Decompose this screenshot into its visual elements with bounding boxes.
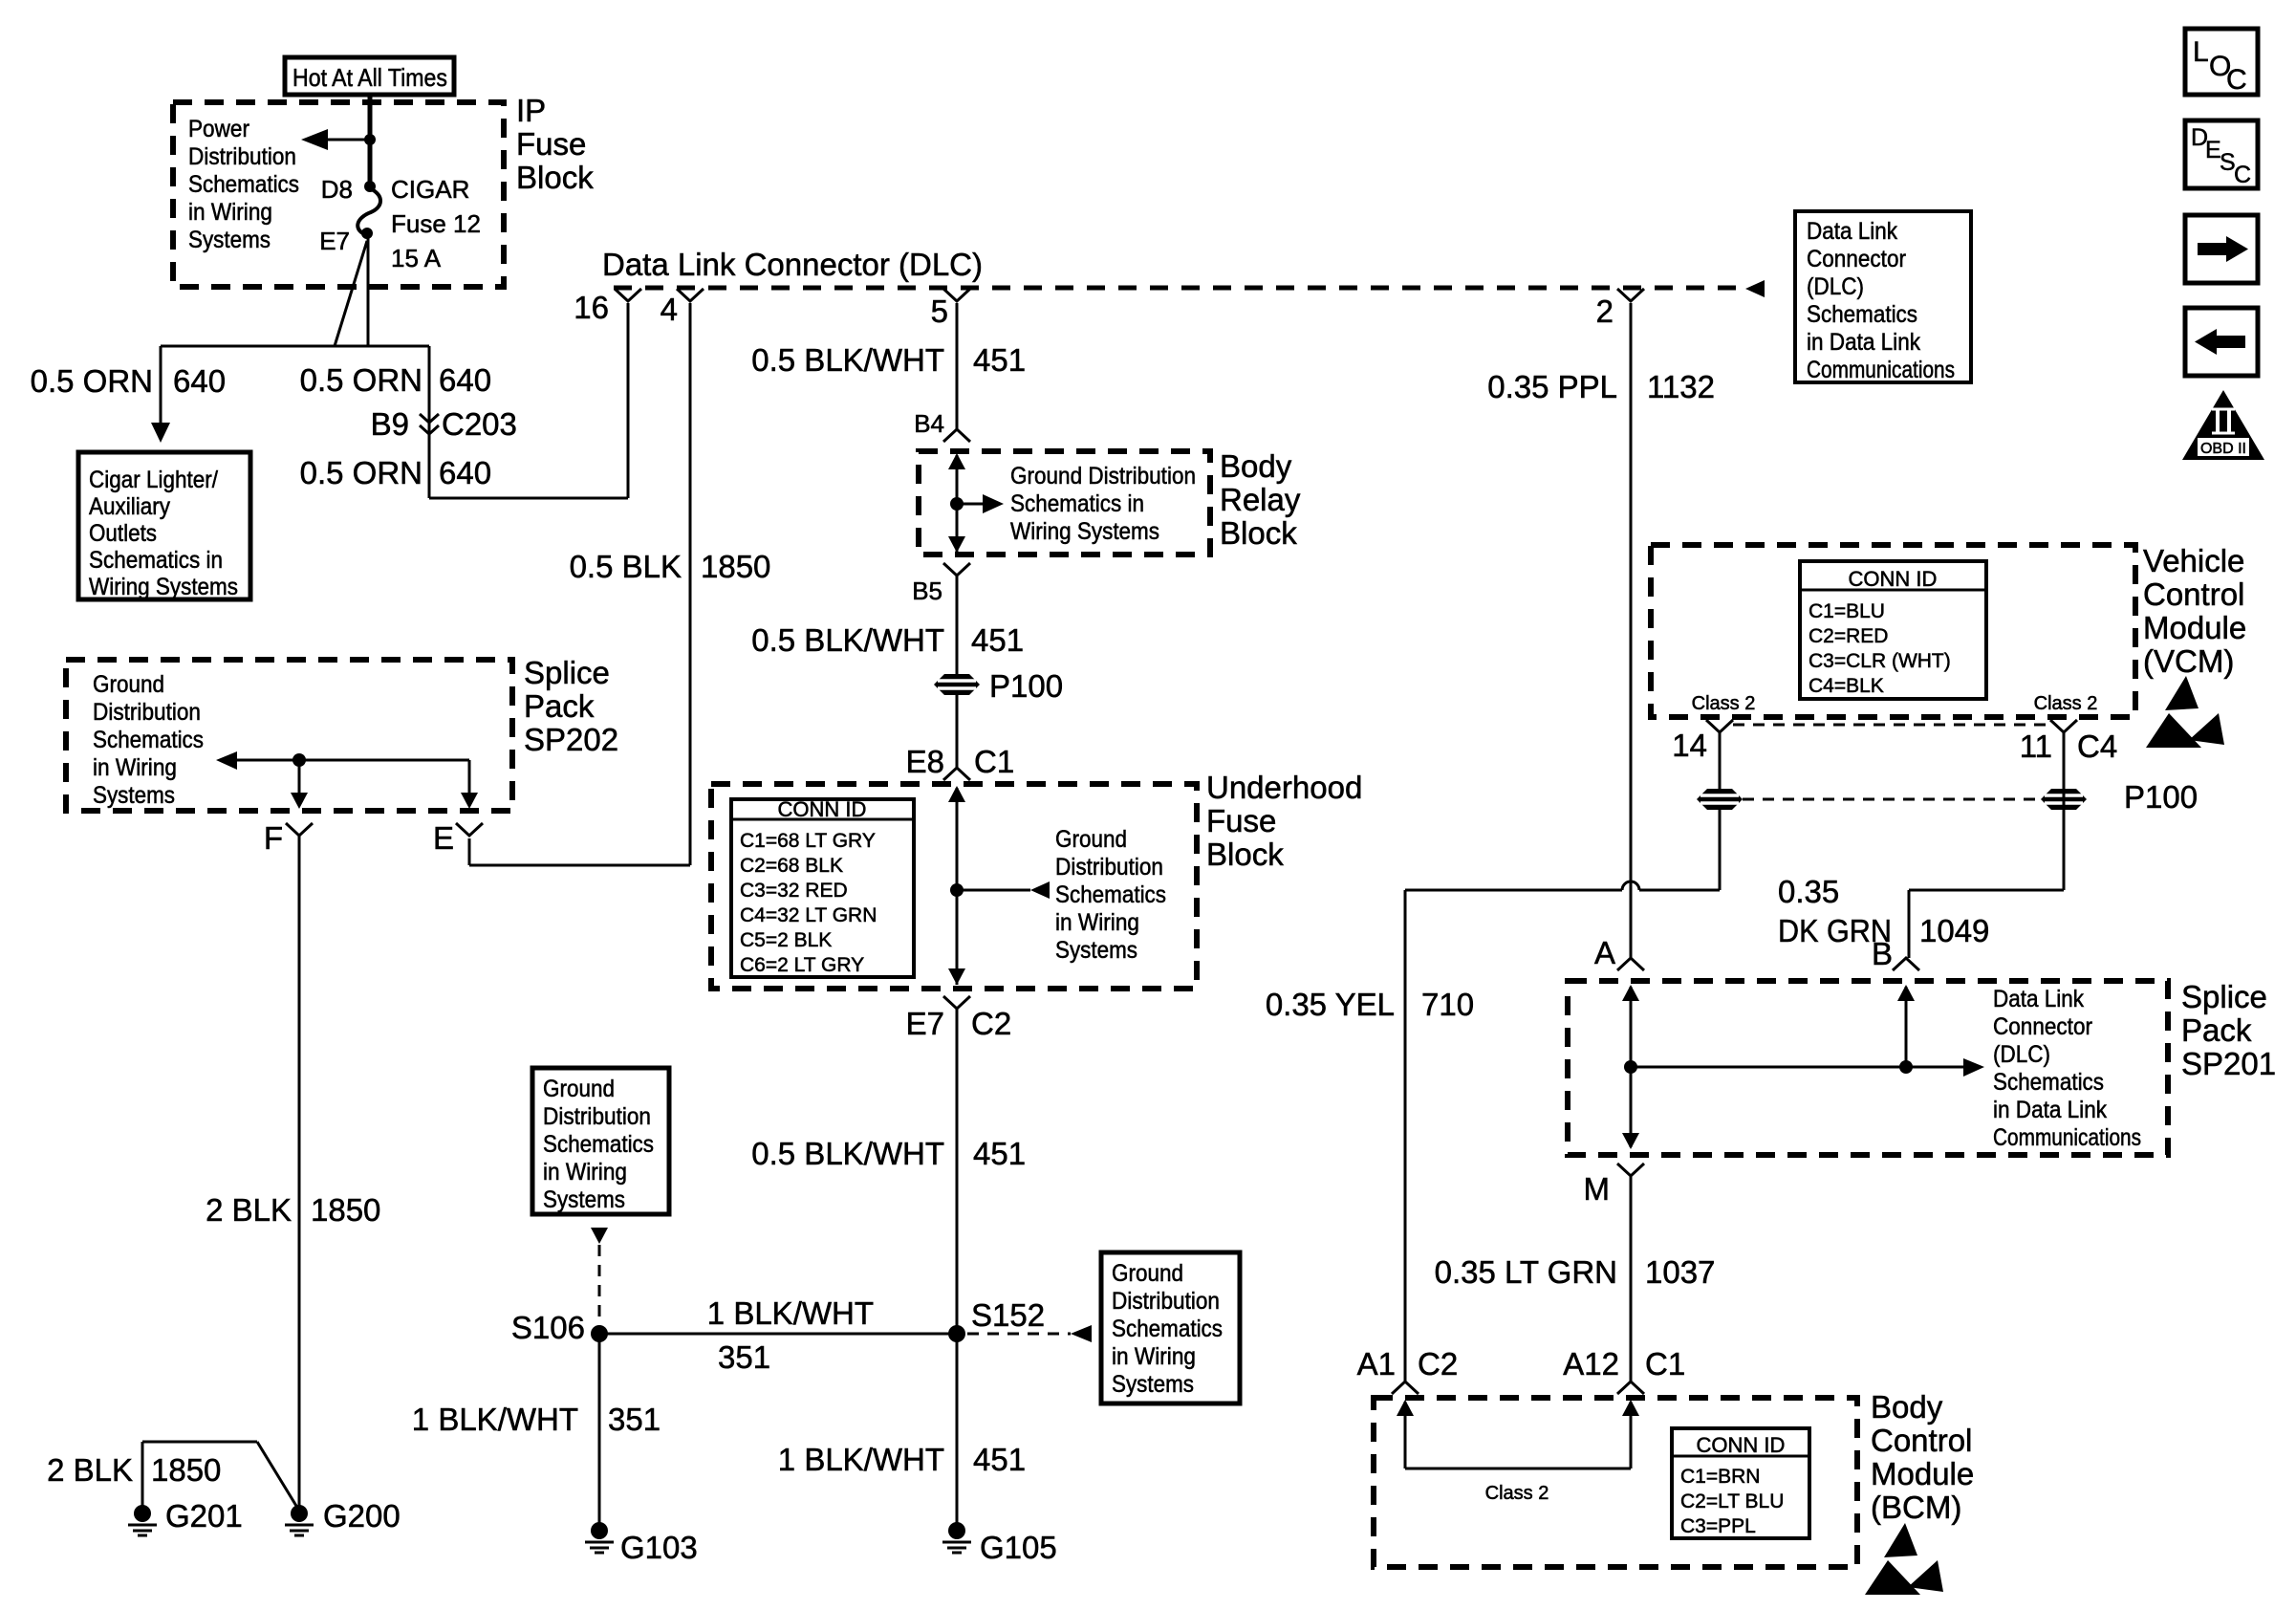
splice S152 dot bbox=[948, 1325, 965, 1342]
wire SP202 internal bus bbox=[235, 759, 469, 762]
svg-text:Block: Block bbox=[1206, 837, 1284, 872]
DLC pin 16 fork terminal bbox=[615, 289, 641, 301]
ground G103 bbox=[591, 1522, 608, 1539]
svg-text:(VCM): (VCM) bbox=[2143, 643, 2234, 679]
ESD symbol (BCM) bbox=[1884, 1523, 1917, 1557]
svg-text:(DLC): (DLC) bbox=[1993, 1041, 2050, 1068]
svg-text:B9: B9 bbox=[371, 406, 409, 442]
svg-text:640: 640 bbox=[173, 363, 226, 399]
svg-text:451: 451 bbox=[973, 1442, 1026, 1477]
svg-text:C4=32 LT GRN: C4=32 LT GRN bbox=[740, 904, 877, 926]
svg-text:C203: C203 bbox=[442, 406, 517, 442]
svg-text:C1=68 LT GRY: C1=68 LT GRY bbox=[740, 830, 876, 852]
svg-text:C2=LT BLU: C2=LT BLU bbox=[1680, 1490, 1784, 1512]
svg-text:Systems: Systems bbox=[1112, 1371, 1194, 1398]
svg-text:A12: A12 bbox=[1563, 1346, 1619, 1382]
svg-text:in Wiring: in Wiring bbox=[1055, 909, 1139, 936]
wire power distribution tap bbox=[326, 139, 370, 141]
svg-text:Wiring Systems: Wiring Systems bbox=[1010, 518, 1159, 545]
wire B5 down to P100 bbox=[956, 576, 959, 674]
svg-text:Class 2: Class 2 bbox=[1485, 1483, 1549, 1504]
grommet P100 (pin5 wire) bbox=[934, 674, 980, 695]
svg-text:351: 351 bbox=[608, 1402, 661, 1437]
svg-text:16: 16 bbox=[574, 290, 609, 325]
svg-text:Hot At All Times: Hot At All Times bbox=[292, 63, 447, 92]
svg-text:Ground: Ground bbox=[543, 1076, 615, 1102]
ground G201 bbox=[134, 1505, 151, 1522]
wire G201 drop bbox=[141, 1442, 144, 1507]
fuse F12 CIGAR 15A element bbox=[357, 188, 380, 235]
splice pack SP202 dashed box bbox=[66, 660, 512, 811]
svg-text:451: 451 bbox=[973, 1136, 1026, 1171]
svg-text:F: F bbox=[264, 820, 283, 856]
svg-text:1049: 1049 bbox=[1919, 913, 1989, 948]
arrow into BCM pin A12 bbox=[1622, 1400, 1639, 1416]
svg-text:Systems: Systems bbox=[1055, 937, 1137, 964]
wire VCM pin 11 down bbox=[2063, 732, 2066, 890]
pin E7 C2 fork terminal bbox=[943, 996, 970, 1009]
svg-text:G201: G201 bbox=[165, 1498, 243, 1534]
svg-text:C3=CLR (WHT): C3=CLR (WHT) bbox=[1809, 650, 1951, 672]
svg-text:2 BLK: 2 BLK bbox=[206, 1192, 292, 1228]
svg-text:Fuse: Fuse bbox=[1206, 803, 1276, 838]
svg-text:Schematics: Schematics bbox=[188, 171, 299, 198]
grommet P100 (pin 11 wire) bbox=[2041, 789, 2087, 810]
arrow into underhood fuse block E8 bbox=[948, 786, 965, 802]
wire BCM pin A1 internal bbox=[1404, 1402, 1407, 1469]
reference box Ground Distribution Schematics in Wiring Systems (above S106) bbox=[532, 1068, 669, 1214]
wire SP201 internal bus bbox=[1631, 1066, 1963, 1069]
ground G105 bbox=[948, 1522, 965, 1539]
svg-text:0.5 ORN: 0.5 ORN bbox=[300, 455, 422, 490]
svg-text:11: 11 bbox=[2020, 729, 2052, 764]
svg-text:SP201: SP201 bbox=[2181, 1046, 2276, 1081]
grommet P100 (pin 14 wire) bbox=[1697, 789, 1743, 810]
svg-text:1850: 1850 bbox=[311, 1192, 380, 1228]
svg-text:4: 4 bbox=[661, 292, 678, 327]
svg-text:G200: G200 bbox=[323, 1498, 401, 1534]
svg-text:Module: Module bbox=[2143, 610, 2246, 645]
svg-text:Ground: Ground bbox=[1055, 826, 1127, 853]
svg-text:CONN ID: CONN ID bbox=[778, 797, 867, 821]
wire G201 branch horizontal bbox=[142, 1441, 257, 1444]
Vehicle Control Module dashed box bbox=[1651, 545, 2135, 717]
svg-text:C1=BRN: C1=BRN bbox=[1680, 1466, 1760, 1488]
wire SP201 port B internal bbox=[1905, 987, 1908, 1067]
svg-text:C1: C1 bbox=[1645, 1346, 1685, 1382]
wire VCM pin 14 down bbox=[1719, 732, 1722, 890]
svg-text:Distribution: Distribution bbox=[93, 699, 201, 726]
svg-text:Auxiliary: Auxiliary bbox=[89, 493, 170, 520]
arrow into body relay block B4 bbox=[948, 453, 965, 469]
junction dot SP201 port B bus bbox=[1899, 1060, 1913, 1074]
connector C203 pin B9 inline connector chevrons bbox=[420, 414, 439, 423]
reference box Data Link Connector (DLC) Schematics in Data Link Communications bbox=[1795, 211, 1971, 382]
svg-text:Distribution: Distribution bbox=[1055, 854, 1163, 881]
svg-text:0.5 BLK/WHT: 0.5 BLK/WHT bbox=[751, 342, 944, 378]
svg-text:CONN ID: CONN ID bbox=[1849, 567, 1938, 591]
VCM pin 14 fork terminal bbox=[1706, 720, 1733, 732]
svg-text:15 A: 15 A bbox=[391, 244, 442, 272]
svg-text:A: A bbox=[1594, 935, 1615, 970]
wire DLC pin 4 to splice pack SP202 port E bbox=[689, 303, 692, 865]
svg-text:Pack: Pack bbox=[2181, 1012, 2252, 1048]
wire BCM pin A12 internal bbox=[1630, 1402, 1633, 1469]
svg-text:(DLC): (DLC) bbox=[1807, 273, 1864, 300]
DLC pin 2 fork terminal bbox=[1617, 289, 1644, 301]
pin E7 terminal dot bbox=[361, 228, 373, 239]
svg-text:Schematics in: Schematics in bbox=[89, 547, 223, 574]
wire to schematics arrow (underhood) bbox=[957, 889, 1030, 892]
svg-text:Data Link Connector (DLC): Data Link Connector (DLC) bbox=[602, 247, 983, 282]
svg-text:1 BLK/WHT: 1 BLK/WHT bbox=[778, 1442, 944, 1477]
svg-text:0.35 YEL: 0.35 YEL bbox=[1266, 987, 1395, 1022]
svg-text:C1=BLU: C1=BLU bbox=[1809, 600, 1885, 622]
wire hop over PPL wire bbox=[1622, 881, 1639, 890]
LOC button bbox=[2185, 29, 2258, 95]
svg-text:351: 351 bbox=[718, 1339, 770, 1375]
CONN ID table (underhood fuse block) bbox=[731, 799, 914, 977]
svg-text:2 BLK: 2 BLK bbox=[47, 1452, 133, 1488]
reference box Ground Distribution Schematics in Wiring Systems (right of S152) bbox=[1101, 1252, 1240, 1403]
svg-text:C6=2 LT GRY: C6=2 LT GRY bbox=[740, 954, 864, 976]
wire pin 11 across to SP201 port B bbox=[1909, 889, 2064, 892]
svg-text:Control: Control bbox=[2143, 577, 2244, 612]
svg-text:C: C bbox=[2226, 64, 2247, 96]
svg-text:Schematics: Schematics bbox=[93, 727, 204, 753]
dashed link between P100 grommets bbox=[1743, 798, 2041, 801]
svg-text:L: L bbox=[2193, 36, 2209, 68]
svg-text:D8: D8 bbox=[321, 175, 353, 204]
arrow to ground distribution schematics (S152) bbox=[1071, 1325, 1092, 1342]
svg-text:Block: Block bbox=[1220, 515, 1297, 551]
CONN ID table (BCM) bbox=[1672, 1428, 1809, 1538]
svg-text:640: 640 bbox=[439, 362, 491, 398]
svg-text:SP202: SP202 bbox=[524, 722, 618, 757]
svg-text:C1: C1 bbox=[974, 744, 1014, 779]
svg-text:IP: IP bbox=[516, 93, 546, 128]
svg-text:Block: Block bbox=[516, 160, 594, 195]
svg-text:1 BLK/WHT: 1 BLK/WHT bbox=[707, 1295, 874, 1331]
wire S106 to S152 bbox=[599, 1333, 957, 1336]
arrow into cigar lighter box bbox=[151, 423, 170, 443]
pin E8 C1 fork terminal bbox=[943, 768, 970, 780]
wire pin 14 across to BCM (0.35 YEL 710) bbox=[1639, 889, 1720, 892]
svg-text:B4: B4 bbox=[914, 409, 944, 438]
arrow out of underhood fuse block E7 bbox=[948, 968, 965, 985]
svg-text:(BCM): (BCM) bbox=[1871, 1490, 1961, 1525]
svg-text:Communications: Communications bbox=[1993, 1124, 2141, 1151]
wire through body relay block bbox=[956, 455, 959, 553]
svg-text:CONN ID: CONN ID bbox=[1697, 1433, 1786, 1457]
arrow to power distribution schematics bbox=[301, 129, 328, 150]
svg-text:Class 2: Class 2 bbox=[2034, 693, 2098, 714]
svg-text:CIGAR: CIGAR bbox=[391, 175, 469, 204]
junction dot SP202 bus bbox=[292, 753, 306, 767]
junction dot power distribution tap bbox=[364, 134, 376, 145]
arrow to DLC schematics reference bbox=[1745, 280, 1765, 297]
Body Relay Block dashed box bbox=[919, 451, 1210, 555]
pin B5 fork terminal bbox=[943, 563, 970, 576]
svg-text:Ground: Ground bbox=[1112, 1260, 1183, 1287]
svg-text:14: 14 bbox=[1672, 728, 1707, 763]
wire SP202 port E drop bbox=[468, 760, 471, 794]
svg-text:Control: Control bbox=[1871, 1423, 1972, 1458]
dashed leader to S106 bbox=[598, 1245, 601, 1323]
junction dot body relay block bbox=[950, 497, 964, 511]
wire riser to DLC pin 16 bbox=[627, 303, 630, 498]
svg-text:Body: Body bbox=[1220, 448, 1292, 484]
svg-text:2: 2 bbox=[1596, 294, 1614, 329]
svg-text:Distribution: Distribution bbox=[1112, 1288, 1220, 1315]
DLC connector dashed boundary line bbox=[614, 286, 1744, 291]
svg-text:C2=68 BLK: C2=68 BLK bbox=[740, 855, 843, 877]
svg-text:1850: 1850 bbox=[701, 549, 770, 584]
splice pack SP201 dashed box bbox=[1568, 981, 2168, 1155]
svg-text:Connector: Connector bbox=[1993, 1013, 2092, 1040]
svg-text:E8: E8 bbox=[906, 744, 944, 779]
svg-text:451: 451 bbox=[971, 622, 1024, 658]
svg-text:1850: 1850 bbox=[151, 1452, 221, 1488]
svg-text:G105: G105 bbox=[980, 1530, 1057, 1565]
svg-text:Splice: Splice bbox=[524, 655, 610, 690]
svg-text:Splice: Splice bbox=[2181, 979, 2267, 1014]
arrow to ground distribution schematics (underhood) bbox=[1030, 881, 1050, 899]
svg-text:C2: C2 bbox=[1418, 1346, 1458, 1382]
BCM pin A1 C2 fork terminal bbox=[1392, 1382, 1419, 1394]
wire SP201 port A internal bbox=[1630, 987, 1633, 1147]
node B+ feed: Hot At All Times box bbox=[285, 57, 454, 95]
wire SP202 port F drop bbox=[298, 760, 301, 794]
svg-text:B5: B5 bbox=[912, 577, 942, 605]
IP Fuse Block dashed box bbox=[173, 102, 504, 287]
svg-text:0.35 PPL: 0.35 PPL bbox=[1487, 369, 1617, 404]
svg-text:P100: P100 bbox=[989, 668, 1063, 704]
svg-text:Relay: Relay bbox=[1220, 482, 1301, 517]
svg-text:1132: 1132 bbox=[1647, 369, 1715, 404]
svg-text:0.5 BLK: 0.5 BLK bbox=[570, 549, 682, 584]
arrow SP202 port F bbox=[291, 793, 308, 809]
arrow out of SP201 port M bbox=[1622, 1133, 1639, 1149]
port F fork terminal bbox=[286, 823, 313, 836]
svg-text:C4: C4 bbox=[2077, 729, 2117, 764]
wire port M down to BCM pin A12 (0.35 LT GRN 1037) bbox=[1630, 1176, 1633, 1382]
CONN ID table (VCM) bbox=[1800, 561, 1986, 699]
svg-text:E7: E7 bbox=[906, 1006, 944, 1041]
wire to schematics arrow (body relay) bbox=[957, 503, 983, 506]
svg-text:Vehicle: Vehicle bbox=[2143, 543, 2244, 578]
junction dot underhood fuse block bbox=[950, 883, 964, 897]
svg-text:E7: E7 bbox=[319, 227, 350, 255]
svg-text:0.5 BLK/WHT: 0.5 BLK/WHT bbox=[751, 622, 944, 658]
svg-text:Distribution: Distribution bbox=[543, 1103, 651, 1130]
wire horizontal y521 to DLC pin 16 riser bbox=[429, 497, 628, 500]
wire P100 to E8 bbox=[956, 695, 959, 768]
Cigar Lighter Auxiliary Outlets reference box bbox=[78, 452, 250, 599]
wire through underhood fuse block bbox=[956, 788, 959, 985]
svg-text:Cigar Lighter/: Cigar Lighter/ bbox=[89, 467, 218, 493]
junction dot SP201 port A bus bbox=[1624, 1060, 1637, 1074]
svg-text:451: 451 bbox=[973, 342, 1026, 378]
dashed connector face line (VCM) bbox=[1733, 724, 2050, 727]
svg-text:in Wiring: in Wiring bbox=[1112, 1343, 1196, 1370]
svg-text:Class 2: Class 2 bbox=[1692, 693, 1756, 714]
svg-text:in Data Link: in Data Link bbox=[1807, 329, 1920, 356]
wire drop to cigar lighter outlets bbox=[160, 346, 162, 426]
svg-text:S106: S106 bbox=[511, 1310, 585, 1345]
svg-text:OBD II: OBD II bbox=[2200, 441, 2246, 457]
svg-text:Systems: Systems bbox=[93, 782, 175, 809]
svg-text:G103: G103 bbox=[620, 1530, 698, 1565]
Body Control Module dashed box bbox=[1374, 1398, 1857, 1567]
port E fork terminal bbox=[456, 823, 483, 836]
svg-text:Ground Distribution: Ground Distribution bbox=[1010, 463, 1196, 490]
svg-text:in Wiring: in Wiring bbox=[93, 754, 177, 781]
svg-text:in Data Link: in Data Link bbox=[1993, 1097, 2107, 1123]
Underhood Fuse Block dashed box bbox=[711, 784, 1197, 989]
arrow into SP201 port B bbox=[1897, 985, 1915, 1001]
svg-text:710: 710 bbox=[1421, 987, 1474, 1022]
svg-text:Module: Module bbox=[1871, 1456, 1974, 1491]
svg-text:C2: C2 bbox=[971, 1006, 1011, 1041]
svg-text:in Wiring: in Wiring bbox=[188, 199, 272, 226]
wire horizontal branch y362 bbox=[161, 345, 429, 348]
wire port F to ground G200 bbox=[298, 836, 301, 1507]
port M fork terminal bbox=[1617, 1164, 1644, 1176]
svg-text:Power: Power bbox=[188, 116, 249, 142]
pin D8 terminal dot bbox=[364, 181, 376, 192]
BCM pin A12 C1 fork terminal bbox=[1617, 1382, 1644, 1394]
svg-text:0.35: 0.35 bbox=[1778, 874, 1839, 909]
wire DLC pin 2 down (0.35 PPL 1132) bbox=[1630, 303, 1633, 958]
svg-text:Data Link: Data Link bbox=[1807, 218, 1897, 245]
svg-text:Outlets: Outlets bbox=[89, 520, 157, 547]
wire S106 to ground G103 bbox=[598, 1334, 601, 1527]
arrow to ground distribution schematics (SP202) bbox=[216, 751, 237, 770]
svg-text:B: B bbox=[1872, 936, 1893, 971]
arrow to DLC schematics (SP201) bbox=[1963, 1058, 1984, 1077]
svg-text:C3=PPL: C3=PPL bbox=[1680, 1515, 1756, 1537]
svg-text:640: 640 bbox=[439, 455, 491, 490]
svg-text:Data Link: Data Link bbox=[1993, 986, 2084, 1012]
arrow into BCM pin A1 bbox=[1397, 1400, 1414, 1416]
ground G200 bbox=[291, 1505, 308, 1522]
DLC pin 4 fork terminal bbox=[677, 289, 704, 301]
wire BCM internal class 2 bus bbox=[1405, 1468, 1631, 1470]
svg-text:Systems: Systems bbox=[188, 227, 271, 253]
DESC button bbox=[2185, 120, 2258, 188]
svg-text:Schematics in: Schematics in bbox=[1010, 490, 1144, 517]
port A fork terminal (SP201) bbox=[1617, 958, 1644, 970]
svg-text:C2=RED: C2=RED bbox=[1809, 625, 1888, 647]
svg-text:M: M bbox=[1584, 1171, 1611, 1207]
arrow into SP201 port A bbox=[1622, 985, 1639, 1001]
wire E7 down bbox=[367, 233, 370, 346]
forward arrow button bbox=[2185, 215, 2258, 283]
svg-text:Schematics: Schematics bbox=[1112, 1316, 1223, 1342]
svg-text:Connector: Connector bbox=[1807, 246, 1906, 272]
svg-text:in Wiring: in Wiring bbox=[543, 1159, 627, 1186]
svg-text:Body: Body bbox=[1871, 1389, 1943, 1425]
svg-text:E: E bbox=[433, 820, 454, 856]
svg-text:P100: P100 bbox=[2124, 779, 2198, 815]
svg-text:Fuse: Fuse bbox=[516, 126, 586, 162]
svg-text:C: C bbox=[2234, 162, 2251, 188]
ESD symbol (VCM) bbox=[2165, 676, 2199, 710]
svg-text:Wiring Systems: Wiring Systems bbox=[89, 574, 238, 600]
svg-text:Underhood: Underhood bbox=[1206, 770, 1362, 805]
OBD II symbol bbox=[2182, 390, 2264, 460]
svg-text:0.5 BLK/WHT: 0.5 BLK/WHT bbox=[751, 1136, 944, 1171]
svg-text:1 BLK/WHT: 1 BLK/WHT bbox=[412, 1402, 578, 1437]
wire E7 down to S152 bbox=[956, 1009, 959, 1527]
svg-text:Fuse 12: Fuse 12 bbox=[391, 209, 481, 238]
wire hot feed into fuse block bbox=[368, 93, 373, 186]
svg-text:0.5 ORN: 0.5 ORN bbox=[31, 363, 153, 399]
svg-text:1037: 1037 bbox=[1645, 1254, 1715, 1290]
svg-text:Schematics: Schematics bbox=[543, 1131, 654, 1158]
arrow from schematics box to S106 bbox=[591, 1228, 608, 1244]
arrow out of body relay block B5 bbox=[948, 536, 965, 553]
svg-text:Schematics: Schematics bbox=[1993, 1069, 2104, 1096]
svg-text:Pack: Pack bbox=[524, 688, 595, 724]
svg-text:Schematics: Schematics bbox=[1807, 301, 1917, 328]
VCM pin 11 fork terminal bbox=[2050, 720, 2077, 732]
svg-text:0.5 ORN: 0.5 ORN bbox=[300, 362, 422, 398]
svg-text:Ground: Ground bbox=[93, 671, 164, 698]
wire ORN circuit 640 drop bbox=[428, 346, 431, 498]
wire diagonal from E7 to cigar branch bbox=[335, 241, 367, 346]
svg-text:C3=32 RED: C3=32 RED bbox=[740, 880, 848, 902]
port B fork terminal (SP201) bbox=[1893, 958, 1919, 970]
splice S106 dot bbox=[591, 1325, 608, 1342]
wire YEL down to BCM pin A1 bbox=[1404, 890, 1407, 1382]
back arrow button bbox=[2185, 308, 2258, 376]
DLC pin 5 fork terminal bbox=[943, 289, 970, 301]
dashed leader from S152 bbox=[967, 1333, 1071, 1336]
svg-text:A1: A1 bbox=[1357, 1346, 1396, 1382]
svg-text:S152: S152 bbox=[971, 1297, 1045, 1333]
wire G201 branch diagonal to G200 bbox=[257, 1442, 299, 1511]
svg-text:C5=2 BLK: C5=2 BLK bbox=[740, 929, 832, 951]
svg-text:Communications: Communications bbox=[1807, 357, 1955, 383]
arrow to ground distribution schematics (body relay) bbox=[983, 494, 1004, 513]
pin B4 fork terminal bbox=[943, 429, 970, 442]
svg-text:Distribution: Distribution bbox=[188, 143, 296, 170]
svg-text:Systems: Systems bbox=[543, 1186, 625, 1213]
svg-text:C4=BLK: C4=BLK bbox=[1809, 675, 1884, 697]
svg-text:Schematics: Schematics bbox=[1055, 881, 1166, 908]
svg-text:0.35 LT GRN: 0.35 LT GRN bbox=[1435, 1254, 1617, 1290]
svg-text:5: 5 bbox=[931, 294, 948, 329]
wire DLC pin 5 down to B4 bbox=[956, 303, 959, 429]
arrow SP202 port E bbox=[461, 793, 478, 809]
